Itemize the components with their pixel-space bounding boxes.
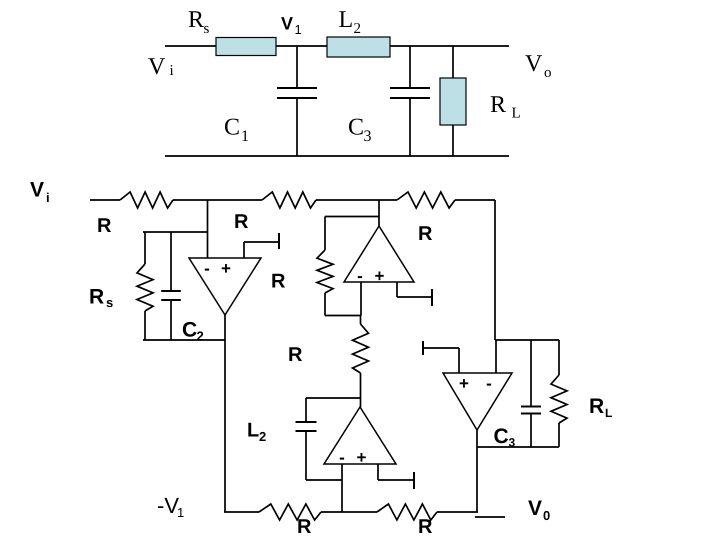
wire cap bottom to U3 inverting input [306,479,342,481]
svg-text:V: V [281,14,293,34]
svg-text:R: R [418,516,433,538]
svg-text:R: R [89,286,104,309]
svg-text:C: C [494,425,509,448]
inductor L2 (box) [327,37,390,57]
op-amp U1 (points down) [189,258,261,315]
resistor R (bottom left zigzag) [259,504,321,520]
ground tick U2 [431,289,433,306]
capacitor of L2 simulation [305,398,307,422]
svg-text:-V: -V [157,493,179,518]
wire node B down to U2 output [378,200,380,226]
wire U1 output down to bottom rail [224,315,226,512]
svg-text:s: s [106,295,113,310]
wire node A down to U1 inverting input [207,200,209,258]
op-amp U4 (points down) [443,373,512,430]
resistor R (bottom right zigzag) [377,504,437,520]
bottom rail segment 3 [437,511,478,513]
svg-text:R: R [288,344,303,366]
svg-text:2: 2 [354,21,362,37]
svg-text:R: R [271,271,286,293]
output stub [475,516,505,518]
wire U3 inverting input down to rail [341,464,343,512]
svg-text:s: s [204,21,210,37]
svg-text:V: V [525,51,543,77]
wire U2 non-inverting input [396,282,398,297]
svg-text:V: V [148,54,166,80]
svg-text:o: o [544,65,552,81]
svg-text:-: - [486,374,492,393]
svg-text:C: C [348,115,364,141]
svg-text:C: C [182,319,197,342]
svg-text:2: 2 [197,329,204,344]
svg-text:+: + [221,259,231,278]
wire to node A [173,199,262,201]
resistor R (second top zigzag) [262,192,316,208]
wire input segment [90,199,120,201]
svg-text:R: R [234,211,249,233]
wire L2 to output [390,45,509,47]
svg-text:L: L [339,7,354,33]
svg-text:-: - [357,267,363,286]
svg-text:R: R [589,395,604,418]
wire U4 non-inverting input [458,348,460,373]
svg-text:0: 0 [543,508,550,523]
ground tick U3 [413,472,415,489]
wire node A to node B [316,199,397,201]
wire top rail to right corner [455,199,495,201]
svg-text:C: C [224,115,240,141]
svg-text:2: 2 [259,429,266,444]
bottom rail segment 2 [321,511,377,513]
svg-text:L: L [605,406,612,420]
svg-text:+: + [375,267,385,286]
wire capacitor tap (L2 simulation) [306,397,361,399]
bottom rail segment 1 [224,511,259,513]
svg-text:R: R [490,92,506,118]
svg-text:1: 1 [241,128,249,145]
capacitor C2 [170,232,172,291]
resistor R (third top zigzag) [397,192,455,208]
svg-text:V: V [30,179,44,202]
wire U2 feedback to inverting input [325,315,361,317]
wire U3 non-inverting input [377,464,379,480]
svg-text:L: L [512,106,521,122]
resistor Rs (box) [216,38,276,56]
svg-text:3: 3 [364,128,372,145]
svg-text:R: R [188,7,204,33]
capacitor C3 [409,46,411,88]
resistor Rs (vertical zigzag) [144,232,146,264]
wire U2 feedback tap [325,216,379,218]
resistor RL (vertical zigzag) [558,340,560,375]
svg-text:R: R [418,223,433,245]
wire Vi input to Rs [165,45,216,47]
ground tick U1 [278,233,280,249]
capacitor C3 (active) [530,340,532,407]
wire right horizontal to C3 and RL [495,339,559,341]
svg-text:i: i [170,63,174,79]
ground tick U4 [422,341,424,355]
wire Rs to L2 [276,45,327,47]
wire right rail to U4 inverting input [495,340,497,373]
wire bottom of C3 and RL to U4 output [477,446,559,448]
svg-text:+: + [357,448,367,467]
wire right rail down [494,200,496,340]
svg-text:L: L [247,420,259,442]
wire feedback bottom [143,339,225,341]
svg-text:+: + [459,374,469,393]
op-amp U2 (points up) [344,226,414,282]
load resistor RL (box) with leads [452,46,454,78]
svg-text:-: - [204,259,210,278]
svg-text:R: R [97,215,112,237]
svg-text:V: V [528,497,542,520]
resistor R (input zigzag) [120,192,173,208]
bottom rail of prototype [165,155,509,157]
wire U4 output down to rail [476,430,478,512]
resistor R (U2 feedback zigzag) [324,217,326,251]
svg-text:R: R [297,516,312,538]
svg-text:i: i [46,190,50,205]
svg-text:1: 1 [295,22,302,37]
capacitor C1 [296,46,298,88]
wire U1 non-inverting input [243,242,245,258]
wire feedback top tap [143,231,208,233]
resistor R (middle vertical zigzag) [360,316,362,325]
op-amp U3 (points up) [324,407,396,464]
svg-text:1: 1 [177,505,184,520]
